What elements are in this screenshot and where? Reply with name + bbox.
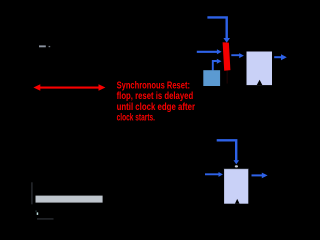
svg-text:clock starts.: clock starts. bbox=[117, 113, 156, 124]
svg-text:until clock edge after: until clock edge after bbox=[117, 102, 196, 113]
svg-text:flop, reset is delayed: flop, reset is delayed bbox=[117, 91, 194, 102]
svg-text:Synchronous Reset:: Synchronous Reset: bbox=[117, 80, 190, 91]
